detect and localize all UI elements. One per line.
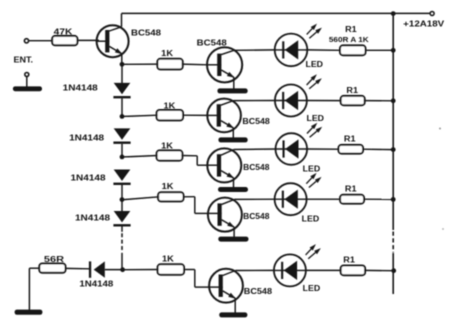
label 1N4148 D1 xyxy=(63,84,99,93)
svg-text:BC548: BC548 xyxy=(243,212,270,221)
ground input xyxy=(13,86,42,91)
svg-text:560R A 1K: 560R A 1K xyxy=(329,35,369,44)
label 1K row 4 xyxy=(162,182,174,191)
label 56R xyxy=(44,255,65,264)
node supply rail junction xyxy=(391,11,396,16)
led LED4 xyxy=(275,183,307,215)
svg-text:LED: LED xyxy=(302,215,320,224)
ground Q5 emitter xyxy=(218,237,248,242)
svg-text:BC548: BC548 xyxy=(242,117,270,126)
terminal +12V supply xyxy=(430,12,434,16)
ground Q4 emitter xyxy=(218,187,248,192)
svg-text:+12A18V: +12A18V xyxy=(403,19,445,28)
label 1N4148 D5 xyxy=(79,279,114,288)
label 1K row 1 xyxy=(161,49,173,58)
wire Q6 collector to LED xyxy=(235,269,275,271)
node rail junction row 1 xyxy=(391,48,396,53)
wire 56R to D5 xyxy=(66,267,90,269)
wire input ground lead xyxy=(26,77,28,87)
label 1K row 5 xyxy=(162,254,174,263)
wire 1K to Q4 base jog xyxy=(181,156,208,166)
label LED row 3 xyxy=(303,165,321,174)
wire Q4 collector xyxy=(221,150,234,156)
svg-text:R1: R1 xyxy=(346,86,358,95)
wire 47K to Q1 base xyxy=(77,39,99,41)
speck artifact lower xyxy=(442,228,444,230)
transistor Q2 BC548 xyxy=(207,47,243,82)
label BC548 Q3 xyxy=(242,117,270,126)
wire D3 through J4 to D4 xyxy=(121,185,123,212)
diode D2 1N4148 xyxy=(113,128,130,144)
wire Q6 emitter xyxy=(223,291,236,314)
wire Q2 collector xyxy=(221,50,234,54)
wire J3 to 1K xyxy=(124,156,158,157)
resistor R1 row 1 xyxy=(340,45,366,55)
node rail junction row 3 xyxy=(391,147,396,152)
label LED row 2 xyxy=(307,114,325,123)
resistor 56R xyxy=(39,264,65,273)
wire right rail dashed gap xyxy=(392,232,394,253)
label 1N4148 D4 xyxy=(75,214,111,223)
node J1 junction xyxy=(120,62,125,67)
ground Q3 emitter xyxy=(218,137,247,142)
wire chain dashed gap xyxy=(121,233,123,250)
label 1K row 3 xyxy=(161,142,173,151)
transistor Q1 BC548 xyxy=(96,25,129,57)
node rail junction row 2 xyxy=(391,98,396,103)
transistor Q6 BC548 xyxy=(209,269,243,303)
wire Q5 emitter xyxy=(222,220,235,238)
wire Q5 collector xyxy=(222,199,235,204)
node J5 junction xyxy=(120,267,125,272)
label +12A18V xyxy=(403,19,445,28)
terminal input ground xyxy=(25,73,29,77)
wire Q4 collector to LED xyxy=(234,148,277,151)
svg-text:1K: 1K xyxy=(161,142,173,151)
wire Q3 emitter xyxy=(221,121,234,139)
led LED5 light arrows xyxy=(306,244,321,259)
wire Q2 collector to LED xyxy=(234,49,276,51)
wire R1 to rail row 5 xyxy=(364,269,393,271)
resistor 47K xyxy=(52,36,77,45)
resistor R1 row 3 xyxy=(339,145,364,154)
svg-text:1N4148: 1N4148 xyxy=(71,174,107,183)
wire D5 to J5 xyxy=(105,269,123,271)
ground Q2 emitter xyxy=(217,88,247,93)
ground Q6 emitter xyxy=(219,312,247,317)
ground 56R return xyxy=(15,310,43,315)
resistor 1K row 2 xyxy=(157,110,183,120)
wire J1 to 1K xyxy=(124,63,158,65)
wire Q3 collector to LED xyxy=(234,100,276,102)
svg-text:1N4148: 1N4148 xyxy=(63,84,99,93)
wire R1 to rail row 4 xyxy=(363,198,393,200)
label 47K xyxy=(54,27,73,36)
terminal input ENT. xyxy=(24,39,28,43)
wire R1 to rail row 2 xyxy=(364,100,394,102)
led LED2 xyxy=(275,85,307,117)
node J2 junction xyxy=(120,114,125,119)
diode D4 1N4148 xyxy=(113,211,130,227)
wire R1 to rail row 3 xyxy=(362,148,393,150)
node rail junction row 5 xyxy=(391,268,396,273)
wire D4 tail xyxy=(121,227,123,232)
svg-text:ENT.: ENT. xyxy=(14,56,34,65)
svg-text:LED: LED xyxy=(303,165,321,174)
svg-text:R1: R1 xyxy=(344,135,356,144)
svg-text:BC548: BC548 xyxy=(244,287,273,296)
wire LED to R1 row 4 xyxy=(307,198,342,200)
wire Q1 collector xyxy=(109,13,121,31)
wire right rail upper xyxy=(392,13,394,230)
wire chain to J5 xyxy=(121,253,123,270)
svg-text:BC548: BC548 xyxy=(197,39,228,48)
resistor R1 row 4 xyxy=(340,195,364,204)
svg-text:1N4148: 1N4148 xyxy=(69,133,105,142)
label 1K row 2 xyxy=(164,102,176,111)
transistor Q4 BC548 xyxy=(207,148,242,182)
label R1 row 1 xyxy=(345,25,357,34)
diode D5 1N4148 xyxy=(89,261,105,277)
led LED2 light arrows xyxy=(307,74,322,89)
wire D1 to J2 xyxy=(121,98,123,116)
svg-text:BC548: BC548 xyxy=(243,163,270,172)
svg-text:BC548: BC548 xyxy=(131,29,162,38)
wire 1K to Q3 base xyxy=(182,114,208,116)
resistor R1 row 5 xyxy=(341,266,365,276)
label LED row 4 xyxy=(302,215,320,224)
svg-text:R1: R1 xyxy=(345,25,357,34)
wire ground riser to 56R xyxy=(29,268,39,310)
label LED row 1 xyxy=(306,60,324,69)
wire 1K to Q2 base xyxy=(182,63,208,66)
led LED5 xyxy=(274,254,306,286)
wire J4 to 1K xyxy=(124,197,159,200)
wire right rail lower xyxy=(392,253,394,294)
wire LED to R1 row 2 xyxy=(307,100,342,102)
label 1N4148 D2 xyxy=(69,133,105,142)
svg-text:LED: LED xyxy=(303,284,321,293)
transistor Q5 BC548 xyxy=(207,198,242,232)
label BC548 Q4 xyxy=(243,163,270,172)
svg-text:1K: 1K xyxy=(161,49,173,58)
label BC548 Q5 xyxy=(243,212,270,221)
wire LED to R1 row 1 xyxy=(307,49,341,51)
resistor 1K row 4 xyxy=(158,192,183,201)
node J3 junction xyxy=(120,155,125,160)
svg-text:1N4148: 1N4148 xyxy=(75,214,111,223)
svg-text:1K: 1K xyxy=(162,182,174,191)
node rail junction row 4 xyxy=(391,197,396,202)
wire Q2 emitter xyxy=(221,70,234,89)
led LED3 xyxy=(276,133,308,165)
wire Q5 collector to LED xyxy=(234,198,275,200)
diode D1 1N4148 xyxy=(113,83,130,99)
wire input to 47K xyxy=(29,40,53,42)
label R1 row 2 xyxy=(346,86,358,95)
wire 1K to Q6 base jog xyxy=(183,270,210,288)
led LED1 light arrows xyxy=(307,24,322,39)
svg-text:1K: 1K xyxy=(162,254,174,263)
svg-text:LED: LED xyxy=(307,114,325,123)
label 560R A 1K xyxy=(329,35,369,44)
svg-text:1N4148: 1N4148 xyxy=(79,279,114,288)
wire D2 to J3 xyxy=(121,144,123,157)
svg-text:R1: R1 xyxy=(343,255,355,264)
label LED row 5 xyxy=(303,284,321,293)
led LED4 light arrows xyxy=(306,173,321,188)
wire R1 to rail row 1 xyxy=(365,49,394,51)
label R1 row 4 xyxy=(345,184,357,193)
label R1 row 3 xyxy=(344,135,356,144)
wire LED to R1 row 3 xyxy=(307,148,339,150)
led LED3 light arrows xyxy=(307,123,322,138)
label BC548 Q1 xyxy=(131,29,162,38)
label BC548 Q2 xyxy=(197,39,228,48)
wire Q4 emitter xyxy=(221,171,234,188)
node J4 junction xyxy=(120,197,125,202)
wire LED to R1 row 5 xyxy=(306,269,342,271)
wire top supply rail xyxy=(122,12,431,14)
speck artifact upper xyxy=(439,128,441,130)
resistor R1 row 2 xyxy=(341,96,365,105)
led LED1 xyxy=(275,34,308,67)
wire Q3 collector xyxy=(221,101,234,106)
label BC548 Q6 xyxy=(244,287,273,296)
diode D3 1N4148 xyxy=(113,170,130,186)
resistor 1K row 3 xyxy=(157,150,183,160)
wire Q1 emitter xyxy=(109,46,122,64)
wire J5 to 1K xyxy=(124,269,159,271)
wire 1K to Q5 base jog xyxy=(183,197,209,214)
wire J1 to D1 xyxy=(121,64,123,83)
wire Q6 collector xyxy=(223,271,236,276)
label ENT. xyxy=(14,56,34,65)
svg-text:R1: R1 xyxy=(345,184,357,193)
label 1N4148 D3 xyxy=(71,174,107,183)
transistor Q3 BC548 xyxy=(207,99,241,133)
resistor 1K row 5 xyxy=(158,264,184,274)
label R1 row 5 xyxy=(343,255,355,264)
resistor 1K row 1 xyxy=(157,59,182,70)
wire J2 to 1K xyxy=(124,115,158,116)
svg-text:LED: LED xyxy=(306,60,324,69)
